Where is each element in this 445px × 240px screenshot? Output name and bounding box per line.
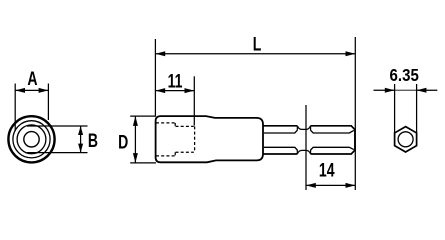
hole dashed jog bottom (174, 152, 176, 156)
svg-text:14: 14 (319, 159, 335, 181)
dim 14 extension line left (305, 105, 307, 190)
dim 6.35 dimension line between (395, 89, 417, 91)
hole dashed wide bottom (156, 155, 175, 157)
dim A arrow left (15, 88, 25, 93)
svg-text:11: 11 (168, 70, 183, 92)
shank hex section outline bottom (263, 153, 297, 155)
dim L extension line left (154, 39, 156, 116)
front view outer circle (8, 116, 54, 162)
groove start vertical bottom (296, 150, 298, 154)
dim 11 arrow left (155, 88, 165, 93)
front view hex-opening circle (17, 125, 46, 154)
svg-text:L: L (253, 33, 262, 55)
dim 11 extension line right (193, 76, 195, 125)
front view center hole circle (24, 132, 39, 147)
hole dashed narrow bottom (176, 151, 194, 153)
hole dashed end vertical (194, 126, 196, 152)
groove start vertical top (296, 126, 298, 131)
dim D arrow up (133, 116, 138, 126)
dim 6.35 left tail (374, 89, 395, 91)
dim D extension line top (130, 115, 156, 117)
dim L arrow left (155, 51, 165, 56)
hex end view inner circle (398, 132, 413, 147)
dim D extension line bottom (130, 162, 156, 164)
dim B tangent line bottom (27, 152, 88, 154)
svg-text:D: D (118, 131, 128, 153)
dim D arrow down (133, 153, 138, 163)
dim 14 arrow left (306, 183, 316, 188)
shank hex section outline top (263, 125, 297, 127)
svg-text:6.35: 6.35 (390, 66, 419, 85)
dim A dimension line (15, 89, 48, 91)
groove neck bottom curve (297, 150, 310, 154)
dim A extension line right (47, 84, 49, 121)
shank hex edge line lower (264, 147, 298, 150)
drive end hex edge upper (311, 130, 354, 133)
front view chamfer circle (13, 121, 50, 158)
drive end outline (311, 126, 355, 154)
dim B arrow line (80, 126, 82, 153)
dim L dimension line (155, 53, 355, 55)
dim 14 arrow right (346, 183, 356, 188)
hex end view extension line left (394, 84, 396, 134)
groove end vertical top (310, 126, 312, 131)
svg-text:A: A (27, 68, 37, 90)
dim 11 arrow right (185, 88, 195, 93)
body outline (156, 116, 263, 162)
hole dashed narrow top (176, 125, 194, 127)
dim B arrow up (78, 126, 83, 135)
dim B arrow down (78, 144, 83, 153)
dim 6.35 left arrow (385, 88, 395, 93)
dim B tangent line top (27, 125, 88, 127)
dim 6.35 right arrow (417, 88, 427, 93)
drive end hex edge lower (311, 147, 354, 150)
dim A extension line left (14, 84, 16, 132)
hex end view hexagon (395, 127, 417, 152)
dim 14 dimension line (306, 184, 355, 186)
shank hex edge line upper (264, 130, 298, 133)
dim L extension line right (shared with 14) (354, 37, 356, 190)
dim 11 dimension line (155, 90, 194, 92)
hole dashed wide top (156, 122, 175, 124)
hex end view extension line right (416, 84, 418, 134)
dim D dimension line (134, 116, 136, 163)
dim A arrow right (39, 88, 49, 93)
groove end vertical bottom (310, 150, 312, 154)
dim L arrow right (346, 51, 356, 56)
hole dashed jog top (174, 123, 176, 127)
svg-text:B: B (88, 130, 98, 152)
dim 6.35 right tail (417, 89, 438, 91)
groove neck top curve (297, 126, 310, 130)
